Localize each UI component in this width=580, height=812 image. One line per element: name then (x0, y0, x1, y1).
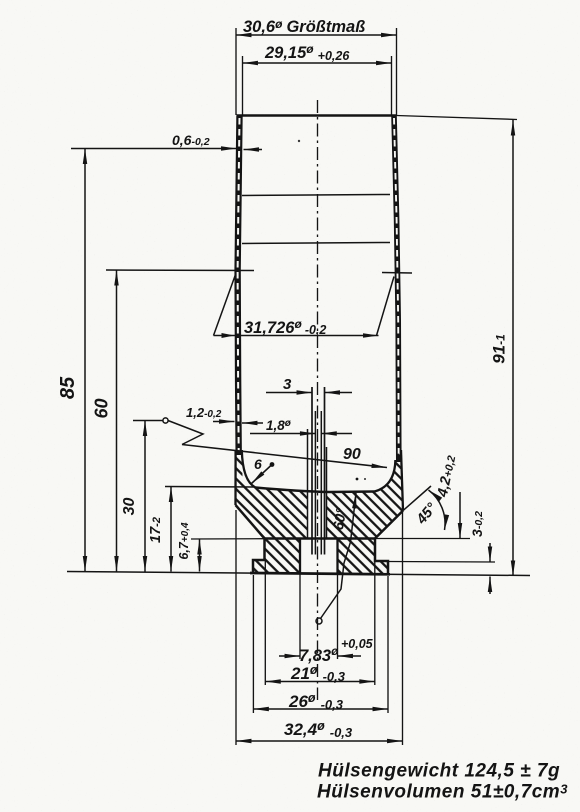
leader 1,2-0,2 with zigzag and circle (163, 405, 263, 445)
groove right + rim (375, 539, 388, 575)
dim 1,8 tube (250, 418, 352, 434)
dim 26 (253, 575, 388, 713)
hatch right body (327, 452, 404, 539)
primer pocket walls (299, 539, 301, 575)
flash tube (311, 387, 313, 555)
dim 21 (265, 560, 375, 685)
baseline (67, 572, 530, 576)
inner bottom (256, 488, 375, 493)
dim 6,7+0,4 (177, 522, 200, 572)
right wall outer lower / inner corner R90 (401, 450, 403, 511)
centerline (317, 100, 319, 700)
left wall band with white dashes (238, 116, 240, 456)
dim 3-0,2 rim (469, 511, 490, 594)
dim 3 tube (266, 376, 352, 393)
left wall outer lower / inner corner R6 (234, 450, 236, 505)
dim 30,6 Groesstmass (236, 17, 397, 115)
dim 85 (57, 149, 85, 572)
right wall band with white dashes (394, 116, 399, 463)
leader 6 corner radius (252, 456, 275, 484)
dim 0,6-0,2 (71, 132, 262, 150)
dim 29,15 +0,26 (243, 42, 392, 115)
hatch left body (235, 450, 307, 539)
case mouth top line (237, 114, 397, 117)
dim 4,2+0,2 (435, 454, 460, 538)
reference tick y272 right (382, 272, 412, 275)
groove left (253, 539, 265, 574)
chamfer right (375, 511, 403, 539)
dim 7,83 (279, 637, 374, 665)
specks (356, 478, 359, 481)
reference tick y270 left (106, 269, 254, 272)
hatch left block below (253, 539, 300, 574)
dim 17-2 (148, 487, 255, 572)
chamfer left (236, 505, 265, 539)
dim 45 deg (403, 486, 445, 530)
inner horizontal line 1 (242, 195, 390, 196)
hatch right block below (338, 539, 389, 575)
leader 60 deg (316, 493, 356, 624)
dim 60 (92, 270, 117, 572)
leader 90 radius (182, 445, 387, 468)
dim 30 (121, 421, 163, 572)
dim 91-1 (490, 120, 514, 576)
inner horizontal line 2 (242, 243, 390, 244)
dim 32,4 (236, 510, 403, 745)
head top line y538.5 (265, 537, 376, 540)
dim 31,726 (214, 275, 395, 339)
